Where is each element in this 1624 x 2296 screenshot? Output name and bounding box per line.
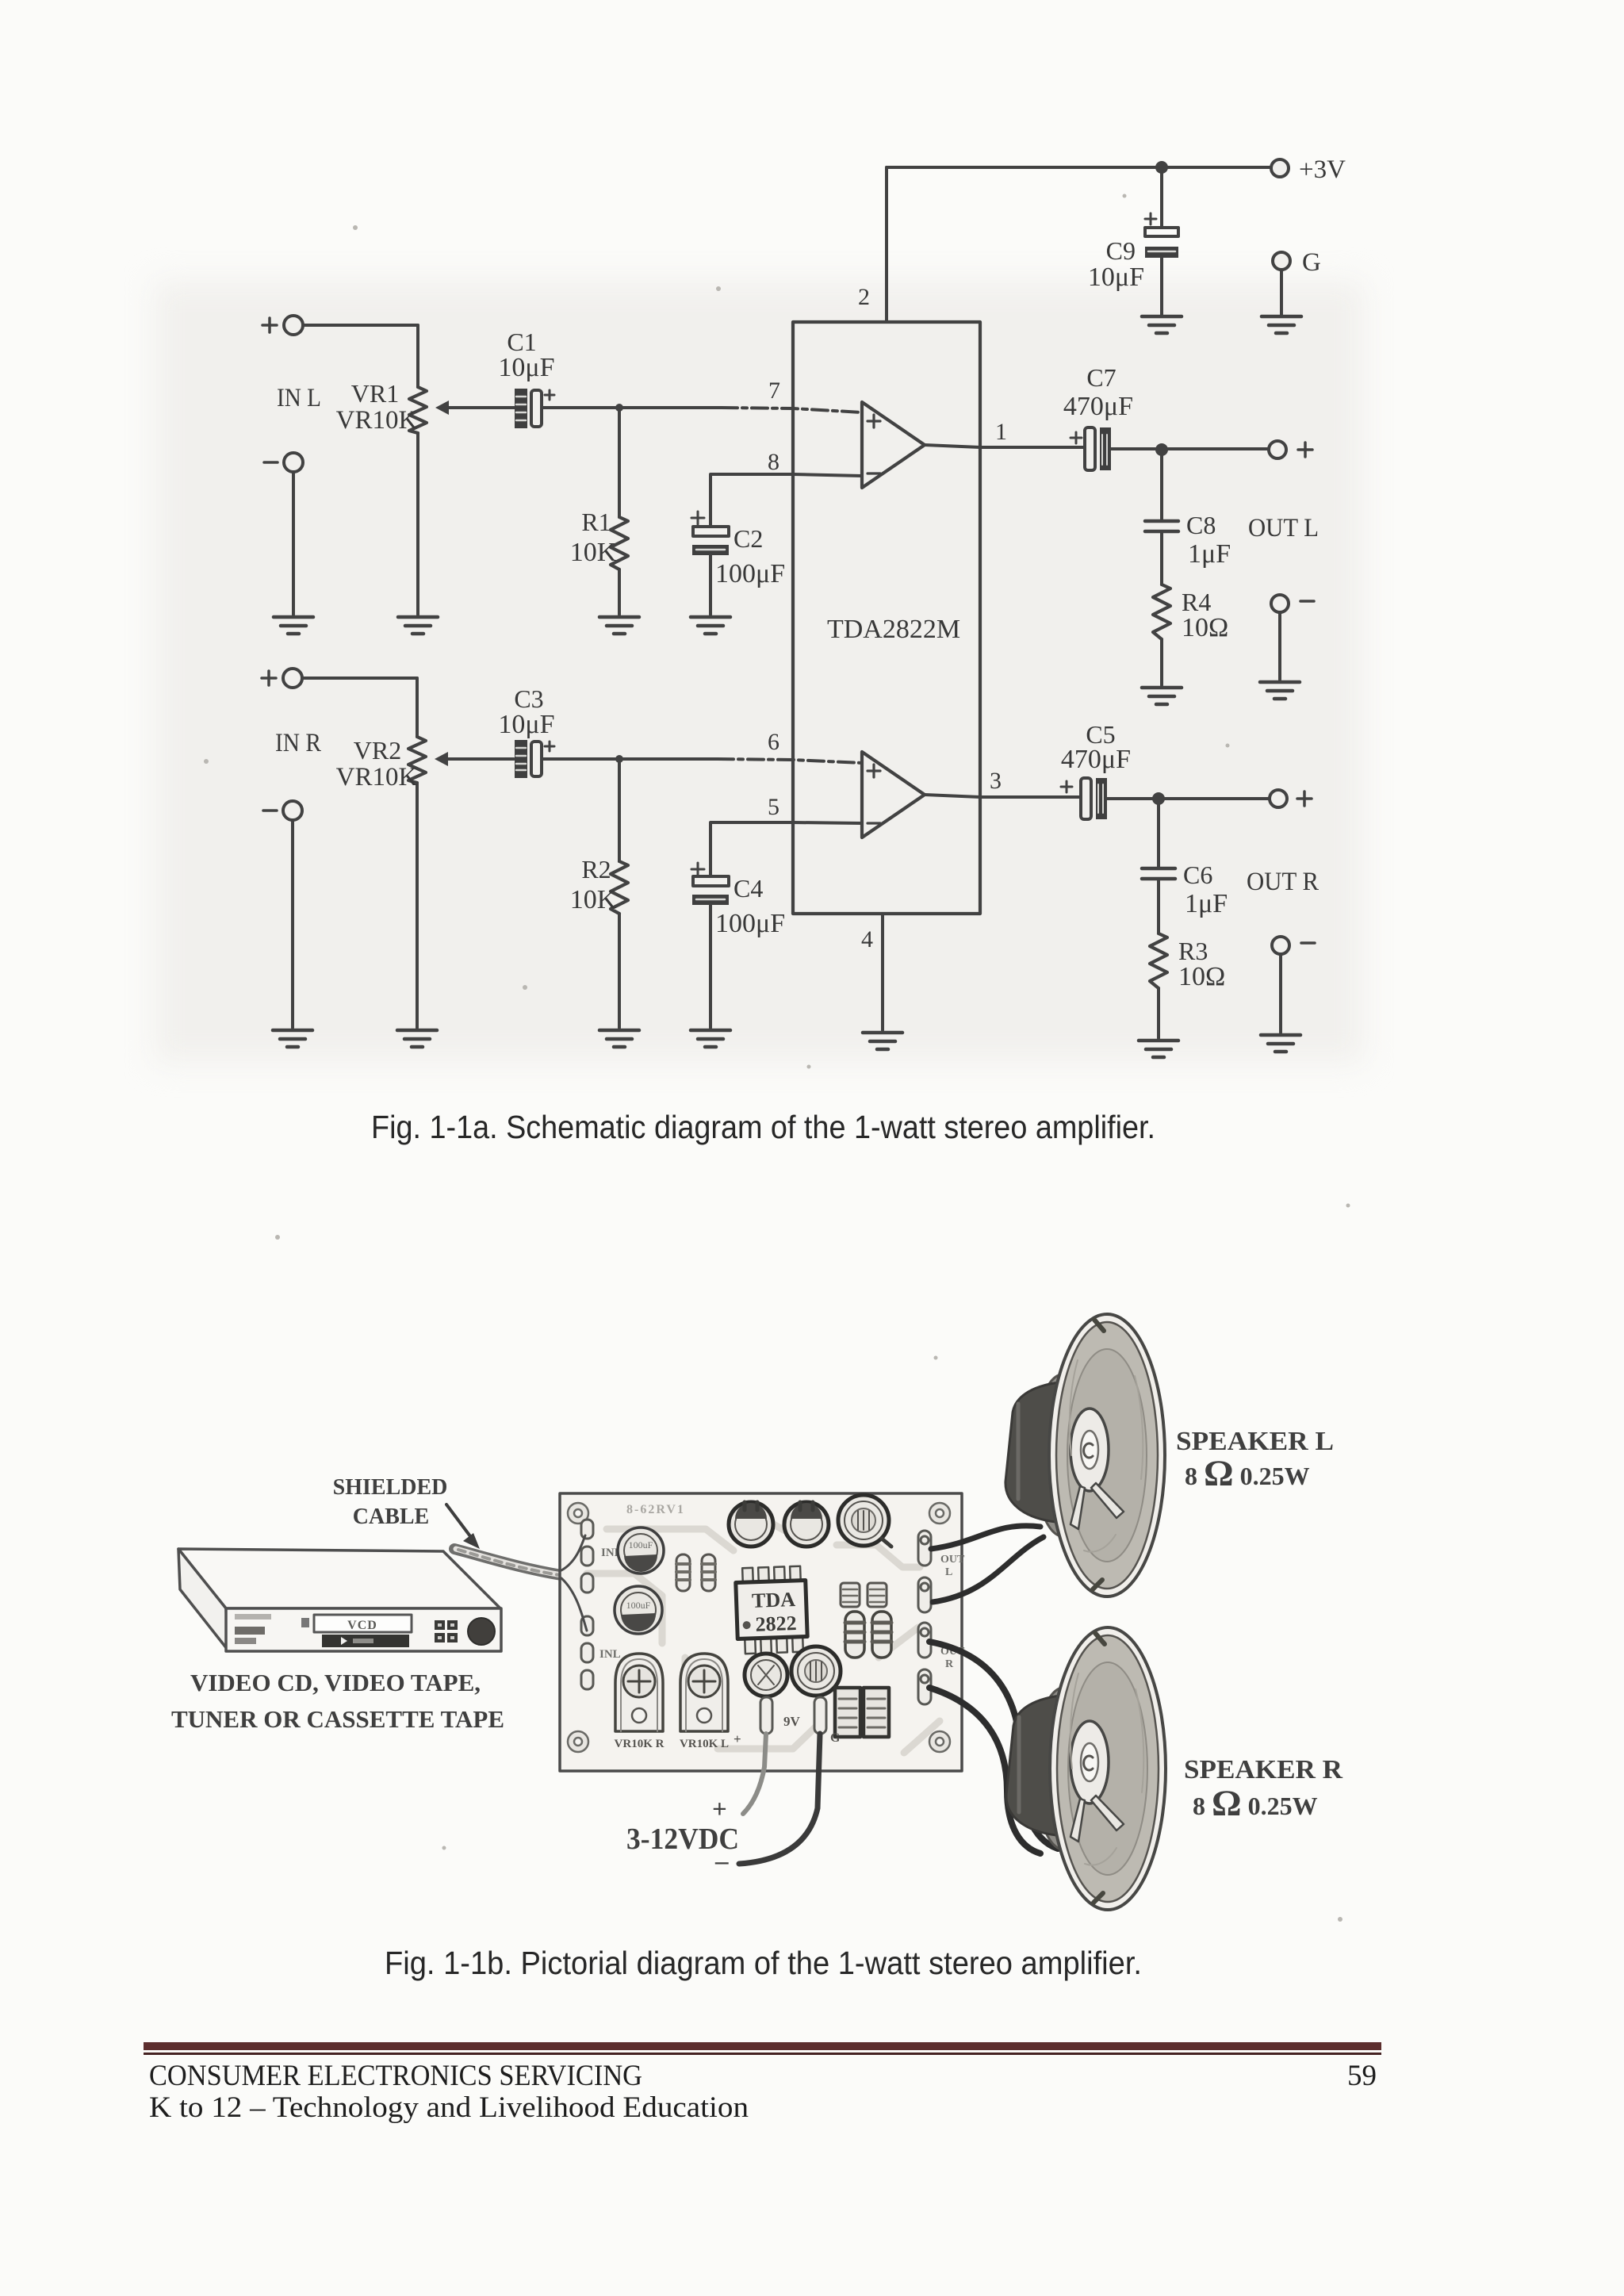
node — [1155, 161, 1168, 174]
svg-text:8: 8 — [768, 449, 779, 475]
svg-text:8 Ω 0.25W: 8 Ω 0.25W — [1185, 1453, 1310, 1494]
VCD knob — [468, 1618, 495, 1645]
speaker L cone texture — [1070, 1360, 1143, 1552]
svg-text:C3: C3 — [514, 684, 543, 713]
PCB input header INL — [581, 1616, 621, 1689]
PCB output pins OUT L — [918, 1531, 965, 1612]
wire PCB to speaker R (upper) — [929, 1642, 1058, 1849]
wire — [1111, 447, 1269, 450]
ground — [1142, 688, 1182, 704]
speaker R — [1006, 1627, 1166, 1910]
terminal OUT L - — [1271, 595, 1314, 680]
VCD player body — [178, 1549, 501, 1651]
capacitor on PCB (top row 3, 470uF) — [838, 1495, 891, 1547]
wire PCB to speaker L (lower) — [933, 1537, 1044, 1602]
svg-text:IN R: IN R — [275, 729, 321, 757]
wire pin 5 — [710, 822, 862, 876]
capacitor on PCB (left electrolytic 2) — [615, 1586, 662, 1634]
svg-text:INL: INL — [599, 1648, 621, 1661]
svg-text:OUT R: OUT R — [1247, 868, 1319, 896]
wire — [542, 757, 619, 761]
power wire - — [739, 1734, 820, 1864]
arrow to cable — [446, 1504, 480, 1549]
resistor on PCB (small, left pair 2) — [702, 1554, 715, 1591]
ground — [1260, 682, 1300, 699]
ground — [1139, 1041, 1178, 1057]
node — [615, 755, 623, 763]
resistor R4 — [1153, 585, 1228, 685]
wire — [709, 905, 712, 1028]
wire — [292, 472, 295, 615]
node — [1152, 792, 1165, 805]
svg-text:C8: C8 — [1186, 511, 1216, 539]
svg-text:7: 7 — [768, 378, 780, 404]
svg-text:TDA: TDA — [752, 1588, 796, 1612]
PCB traces — [587, 1507, 940, 1753]
potentiometer VR10K R on PCB — [615, 1654, 665, 1750]
capacitor on PCB (top row 2) — [784, 1502, 829, 1547]
svg-text:VCD: VCD — [347, 1619, 377, 1632]
capacitor on PCB (below IC 1) — [745, 1654, 787, 1696]
svg-text:OUT: OUT — [940, 1554, 965, 1566]
svg-text:100uF: 100uF — [629, 1539, 653, 1550]
svg-text:VR10K: VR10K — [336, 763, 418, 792]
wire — [709, 555, 712, 615]
svg-text:Fig. 1-1b. Pictorial diagram o: Fig. 1-1b. Pictorial diagram of the 1-wa… — [385, 1945, 1142, 1981]
op-amp A1 — [862, 402, 925, 488]
svg-text:VR10K R: VR10K R — [615, 1738, 665, 1750]
svg-text:C9: C9 — [1106, 236, 1136, 265]
terminal +3V — [1271, 155, 1346, 184]
svg-text:1μF: 1μF — [1185, 889, 1228, 918]
svg-text:CONSUMER ELECTRONICS SERVICING: CONSUMER ELECTRONICS SERVICING — [149, 2060, 642, 2092]
svg-text:–: – — [714, 1847, 729, 1876]
svg-text:SPEAKER L: SPEAKER L — [1176, 1427, 1334, 1456]
svg-text:R1: R1 — [581, 508, 611, 536]
CAPTIONS — [371, 1109, 1155, 1981]
svg-text:10K: 10K — [570, 885, 617, 914]
ground — [863, 1033, 902, 1049]
svg-text:10μF: 10μF — [498, 353, 554, 382]
capacitor C1 — [498, 328, 554, 428]
terminal IN R - — [263, 801, 302, 820]
resistor on PCB (mid right 1) — [845, 1612, 864, 1658]
resistor on PCB (small, left pair) — [676, 1554, 690, 1591]
svg-text:CABLE: CABLE — [353, 1504, 429, 1529]
svg-text:1: 1 — [995, 419, 1007, 445]
svg-text:Fig. 1-1a. Schematic diagram o: Fig. 1-1a. Schematic diagram of the 1-wa… — [371, 1109, 1155, 1145]
ground — [273, 1030, 312, 1047]
pin 3 wire — [925, 768, 1081, 797]
wire PCB to speaker R (lower) — [929, 1688, 1040, 1853]
svg-text:470μF: 470μF — [1061, 745, 1131, 774]
capacitor C9 — [1088, 167, 1178, 316]
ground — [398, 617, 438, 634]
IC U1 TDA2822M — [793, 322, 980, 914]
svg-text:SHIELDED: SHIELDED — [333, 1475, 448, 1500]
svg-text:100uF: 100uF — [626, 1600, 651, 1611]
potentiometer VR10K L on PCB — [680, 1654, 729, 1750]
svg-text:2822: 2822 — [755, 1612, 797, 1636]
IC TDA2822 on PCB — [735, 1566, 808, 1654]
svg-text:C7: C7 — [1086, 363, 1116, 392]
ground — [1142, 316, 1182, 333]
label SHIELDED CABLE — [333, 1475, 448, 1529]
svg-text:10μF: 10μF — [498, 710, 554, 739]
ground — [691, 617, 730, 634]
capacitor C2 — [691, 512, 785, 588]
ground — [691, 1030, 730, 1047]
wire — [302, 677, 417, 680]
resistor R1 — [570, 408, 628, 615]
svg-text:G: G — [830, 1731, 841, 1745]
speaker R cone texture — [1071, 1673, 1143, 1865]
ground — [1261, 1035, 1300, 1052]
svg-text:R: R — [945, 1658, 954, 1670]
svg-text:VR10K: VR10K — [336, 406, 418, 435]
svg-text:C1: C1 — [507, 328, 536, 356]
PCB corner pads — [568, 1503, 950, 1752]
svg-text:G: G — [1302, 248, 1321, 277]
ceramic capacitor on PCB 1 — [841, 1583, 860, 1607]
svg-text:2: 2 — [858, 284, 870, 310]
ground — [599, 1030, 639, 1047]
resistor on PCB (mid right 2) — [872, 1612, 891, 1658]
op-amp A2 — [862, 752, 925, 838]
capacitor C6 — [1142, 799, 1228, 933]
capacitor C8 — [1145, 450, 1231, 585]
terminal G — [1273, 248, 1321, 316]
ground — [599, 617, 639, 634]
svg-text:8-62RV1: 8-62RV1 — [626, 1503, 685, 1516]
svg-text:TDA2822M: TDA2822M — [827, 615, 960, 644]
wire — [291, 820, 294, 1028]
svg-text:C6: C6 — [1183, 861, 1212, 889]
svg-text:VIDEO CD, VIDEO TAPE,: VIDEO CD, VIDEO TAPE, — [190, 1669, 481, 1696]
svg-text:10K: 10K — [570, 538, 617, 567]
potentiometer VR2 — [336, 678, 426, 1028]
svg-text:VR1: VR1 — [351, 379, 399, 408]
svg-text:VR2: VR2 — [354, 736, 401, 765]
svg-text:+: + — [712, 1796, 727, 1824]
PCB input header INR — [581, 1520, 623, 1593]
svg-text:10μF: 10μF — [1088, 263, 1144, 292]
terminal OUT R + — [1270, 790, 1312, 807]
wire top rail — [887, 166, 1271, 169]
wire VR1 wiper — [435, 401, 515, 415]
capacitor C4 — [691, 863, 785, 938]
svg-text:5: 5 — [768, 794, 779, 820]
ceramic capacitor on PCB 2 — [868, 1583, 887, 1607]
VCD logo marks — [235, 1614, 271, 1644]
ground — [397, 1030, 437, 1047]
shielded cable — [454, 1549, 561, 1575]
FOOTER — [144, 2042, 1381, 2124]
svg-text:R2: R2 — [581, 855, 611, 884]
speaker L — [1005, 1314, 1165, 1596]
film capacitor on PCB 1 — [835, 1688, 860, 1737]
pin 2 wire — [885, 167, 888, 322]
terminal OUT L + — [1269, 441, 1312, 458]
VCD display — [322, 1635, 409, 1647]
svg-text:6: 6 — [768, 729, 779, 755]
resistor R3 — [1150, 933, 1225, 1038]
svg-text:L: L — [945, 1566, 952, 1578]
terminal IN L - — [264, 453, 303, 472]
svg-text:4: 4 — [861, 926, 873, 953]
wire — [1107, 797, 1269, 800]
svg-text:8 Ω 0.25W: 8 Ω 0.25W — [1193, 1783, 1318, 1824]
wire VR2 wiper — [435, 752, 514, 766]
PICTORIAL — [171, 1314, 1342, 1910]
potentiometer VR1 — [336, 325, 427, 615]
svg-text:59: 59 — [1347, 2060, 1377, 2092]
scan speckles — [204, 194, 1350, 1922]
svg-text:100μF: 100μF — [715, 559, 785, 588]
node — [1155, 443, 1168, 456]
wire to pin 7 — [619, 406, 722, 409]
wire to pin 6 — [619, 757, 718, 761]
film capacitor on PCB 2 — [864, 1688, 889, 1737]
capacitor on PCB (below IC 2, 470uF) — [791, 1646, 841, 1696]
svg-text:VR10K L: VR10K L — [680, 1738, 729, 1750]
svg-text:K to 12 – Technology and Livel: K to 12 – Technology and Livelihood Educ… — [149, 2091, 749, 2124]
svg-text:470μF: 470μF — [1063, 392, 1133, 421]
terminal IN L + — [262, 316, 303, 335]
ground — [1262, 316, 1301, 333]
svg-text:OUT L: OUT L — [1248, 514, 1319, 542]
svg-text:C2: C2 — [733, 524, 763, 553]
capacitor C3 — [498, 684, 554, 778]
ground — [274, 617, 313, 634]
svg-text:100μF: 100μF — [715, 909, 785, 938]
pin 1 wire — [925, 419, 1085, 447]
svg-text:+3V: +3V — [1299, 155, 1346, 184]
terminal IN R + — [262, 669, 302, 688]
PCB power pins — [733, 1697, 841, 1746]
VCD disc tray — [301, 1615, 412, 1632]
wire — [542, 406, 619, 409]
resistor R2 — [570, 759, 628, 1028]
terminal OUT R - — [1272, 937, 1315, 1033]
wire — [303, 324, 418, 327]
capacitor on PCB (top row 1) — [729, 1502, 773, 1547]
wire PCB to speaker L (upper) — [931, 1526, 1040, 1549]
svg-text:3: 3 — [990, 768, 1002, 794]
capacitor C7 — [1063, 363, 1133, 470]
svg-text:TUNER OR CASSETTE TAPE: TUNER OR CASSETTE TAPE — [171, 1705, 504, 1733]
svg-text:1μF: 1μF — [1188, 539, 1231, 569]
cable leads into PCB — [561, 1535, 587, 1631]
pin 4 wire — [861, 914, 883, 1030]
PCB board — [560, 1493, 962, 1771]
power wire + — [743, 1734, 766, 1814]
capacitor C5 — [1061, 720, 1131, 819]
capacitor on PCB (top-left electrolytic) — [618, 1527, 664, 1573]
svg-text:SPEAKER R: SPEAKER R — [1184, 1755, 1342, 1784]
PCB output pins OUT R — [918, 1623, 965, 1704]
svg-text:IN L: IN L — [277, 384, 321, 412]
svg-text:9V: 9V — [783, 1714, 801, 1729]
svg-text:+: + — [733, 1731, 741, 1746]
svg-text:R4: R4 — [1182, 588, 1211, 616]
svg-text:C4: C4 — [733, 874, 763, 903]
svg-text:10Ω: 10Ω — [1178, 962, 1225, 991]
svg-text:R3: R3 — [1178, 937, 1208, 965]
node — [615, 404, 623, 412]
svg-text:10Ω: 10Ω — [1182, 613, 1228, 642]
VCD buttons — [435, 1620, 458, 1642]
wire pin 8 — [710, 474, 862, 527]
